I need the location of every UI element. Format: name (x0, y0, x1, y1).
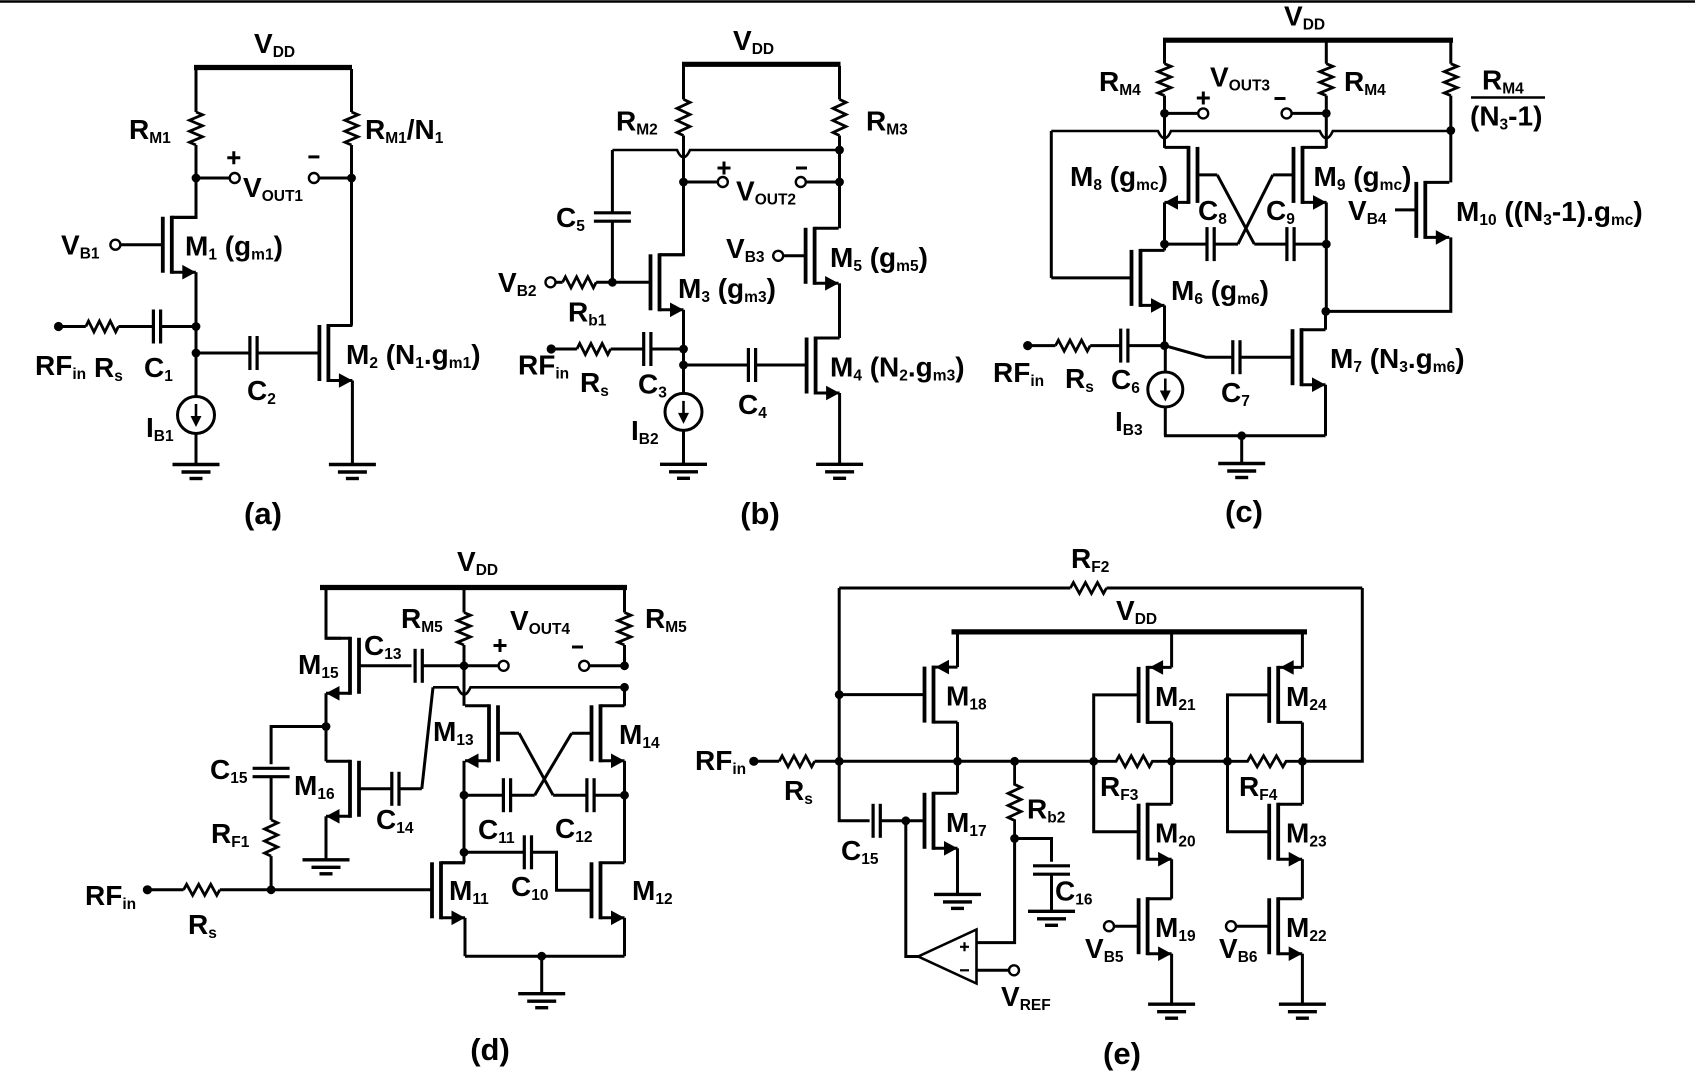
capacitor C14 (390, 772, 393, 806)
ground (d) (518, 992, 565, 995)
minus sign (c) (1275, 97, 1286, 100)
wire M13 source to node A (d) (463, 761, 466, 795)
wire M13 gate diagonal to C12 (519, 733, 553, 795)
wire node to C4 (684, 364, 749, 367)
resistor RM4 left (1158, 64, 1171, 96)
wire M20 source to M19 drain (1170, 859, 1173, 899)
resistor Rs (a) (86, 321, 119, 332)
resistor RF2 (1070, 583, 1106, 594)
wire node to ground (c) (1240, 436, 1243, 464)
wire RFin to Rs (e) (754, 760, 779, 763)
wire M7 source down (c) (1324, 385, 1327, 436)
wire input node to IB3 (1164, 346, 1167, 372)
ground (c) (1218, 462, 1265, 465)
wire VB5 to M19 gate (1114, 925, 1139, 928)
transistor M1 (161, 217, 165, 273)
wire Rs to RF node (e) (815, 760, 840, 763)
wire M23 gate to RF4 node (1228, 761, 1270, 831)
wire tee to M18 gate (839, 693, 924, 696)
node input (a) (192, 322, 201, 331)
wire C15 to RF1 (270, 777, 273, 820)
wire M5 source to M4 drain (838, 283, 841, 338)
node RF4 left (1223, 757, 1232, 766)
wire M8 gate lead (1198, 173, 1218, 176)
node RF input (e) (835, 757, 844, 766)
terminal VB1 (110, 240, 120, 250)
ground IB1 (173, 463, 220, 466)
node out- (c) (1322, 109, 1331, 118)
wire resistor to feedback node (c) (1449, 96, 1452, 131)
wire M16 source to ground (325, 816, 328, 860)
transistor M21 pmos (1137, 667, 1141, 723)
node A (c) (1160, 240, 1169, 249)
terminal out+ (c) (1198, 108, 1208, 118)
node C10 tap (d) (460, 848, 469, 857)
svg-text:(d): (d) (470, 1032, 510, 1067)
wire node to C15 branch (271, 727, 326, 765)
ground M19 (1148, 1003, 1195, 1006)
wire feedback to M6 gate (1051, 276, 1131, 279)
RF row wire (e) (839, 760, 1093, 763)
wire M18 drain to RF node (956, 722, 959, 761)
resistor RM3 (833, 99, 846, 135)
wire C7 to M7 gate (1240, 356, 1293, 359)
transistor M15 (357, 638, 361, 694)
wire out+ node to M8 drain (1163, 113, 1166, 147)
wire VB6 to M22 gate (1236, 925, 1269, 928)
wire M14 gate lead (572, 732, 592, 735)
wire Rs to M11 gate (220, 888, 432, 891)
wire M14 drain to node (623, 687, 626, 706)
transistor M10 (1414, 182, 1418, 238)
terminal out- (d) (579, 661, 589, 671)
wire left feedback vertical (838, 588, 841, 761)
capacitor C2 (248, 336, 251, 370)
wire RM5 right to out- node (623, 645, 626, 666)
capacitor C12 (585, 778, 588, 812)
wire out+ to terminal (d) (464, 664, 499, 667)
resistor RF4 (1228, 756, 1303, 767)
resistor Rb2 (1008, 761, 1021, 838)
node M16 drain (d) (322, 722, 331, 731)
wire feedback vertical (c) (1050, 131, 1053, 278)
transistor M19 (1137, 898, 1141, 954)
svg-text:(c): (c) (1225, 494, 1263, 529)
wire terminal to out- node (c) (1292, 112, 1327, 115)
transistor M13 (496, 705, 500, 761)
wire VDD to RM5 left (463, 590, 466, 613)
node B (c) (1322, 240, 1331, 249)
wire M11 source to bottom rail (464, 918, 467, 956)
wire C2 node to IB1 (195, 353, 198, 397)
wire Rb1 to VB2 node (596, 281, 612, 284)
bottom rail (d) (465, 955, 625, 958)
transistor M7 (1291, 329, 1295, 385)
node RF4 right (1298, 757, 1307, 766)
terminal RFin (e) (749, 757, 758, 766)
wire VB2 node to M3 gate (612, 281, 650, 284)
capacitor C4 (747, 348, 750, 382)
wire M2 source to ground (351, 381, 354, 465)
wire input diagonal to C7 (1165, 346, 1233, 358)
node ground (d) (537, 952, 546, 961)
wire C15 branch down (839, 761, 869, 821)
wire RFin to Rs (b) (551, 348, 577, 351)
wire C5 top feedback with hop (612, 150, 839, 157)
current source IB1 (178, 397, 215, 434)
wire Rs to C1 (118, 325, 153, 328)
VDD rail (d) (320, 585, 627, 590)
transistor M24 pmos (1267, 667, 1271, 723)
wire C15 to gate node (880, 819, 906, 822)
wire gate node to opamp output (906, 821, 918, 957)
wire C12 to node B (594, 794, 624, 797)
current source IB3 (1148, 372, 1183, 407)
terminal out- (a) (309, 173, 319, 183)
VDD rail (e) (952, 629, 1308, 634)
transistor M17 (923, 793, 927, 849)
wire VDD to RM5 right (623, 590, 626, 613)
capacitor C11 (502, 778, 505, 812)
RF row wire mid (e) (1172, 760, 1228, 763)
capacitor C13 (414, 649, 417, 683)
wire RF2 to right vertical (1107, 587, 1363, 590)
wire RFin to Rs (c) (1028, 344, 1056, 347)
wire C5 top vertical (611, 150, 614, 213)
wire M23 source to M22 drain (1301, 859, 1304, 899)
capacitor C16 (1033, 864, 1070, 867)
bottom rail (c) (1164, 434, 1326, 437)
node VB2 (b) (608, 278, 617, 287)
node feedback right (b) (835, 146, 844, 155)
node RF3 left (1089, 757, 1098, 766)
wire C14 right stub (399, 787, 422, 790)
wire M18 source to VDD (956, 632, 959, 667)
wire right feedback vertical (1302, 588, 1362, 761)
wire C13 to out+ node (d) (422, 664, 464, 667)
wire node A to C8 (1165, 243, 1208, 246)
resistor Rs (e) (779, 756, 814, 767)
capacitor C15 (e) (871, 804, 874, 838)
ground IB2 (660, 463, 707, 466)
wire M15 source to node (325, 693, 328, 726)
resistor RM4 mid (1320, 64, 1333, 96)
ground C16 (1028, 910, 1075, 913)
wire Rs to C3 (611, 348, 644, 351)
wire node to C10 (464, 851, 524, 854)
wire terminal to out- node (319, 177, 352, 180)
transistor M14 (590, 705, 594, 761)
node out- (a) (347, 174, 356, 183)
wire M9 source to node B (1325, 202, 1328, 244)
minus sign (d) (572, 646, 583, 649)
wire C11 to M14 gate diagonal (511, 794, 535, 797)
capacitor C5 (594, 211, 631, 214)
transistor M12 (590, 862, 594, 918)
wire M14 gate diagonal to C11 (535, 733, 572, 795)
wire M11 drain corner (441, 861, 464, 864)
node out- (d) (620, 661, 629, 670)
capacitor C8 (1205, 227, 1208, 261)
wire M23 drain to RF4 node (1301, 761, 1304, 804)
VDD rail (b) (682, 62, 841, 67)
wire opamp minus to VREF (977, 969, 1010, 972)
wire input node to C4 node (682, 349, 685, 365)
node out- (b) (835, 178, 844, 187)
wire C4 to M4 gate (756, 364, 807, 367)
node feedback right (c) (1446, 126, 1455, 135)
terminal out+ (d) (499, 661, 509, 671)
resistor RM1 (190, 112, 203, 145)
capacitor C15 (d) (253, 767, 290, 770)
transistor M11 (430, 862, 434, 918)
wire M17 source to ground (956, 848, 959, 894)
terminal VB2 (546, 277, 556, 287)
wire VB2 to Rb1 (556, 281, 563, 284)
transistor M9 (1292, 147, 1296, 203)
node Rb2 top (1010, 757, 1019, 766)
node RF1 input (d) (267, 885, 276, 894)
plus sign (a) (227, 151, 240, 164)
wire RM4 to out+ node (c) (1163, 96, 1166, 114)
ground M16 (303, 858, 350, 861)
terminal out- (b) (796, 177, 806, 187)
wire M21 gate to RF3 node (1094, 695, 1139, 761)
wire RM3 to node (b) (838, 136, 841, 183)
terminal VB6 (1226, 921, 1236, 931)
wire C6 to input node (c) (1128, 344, 1165, 347)
resistor RF3 (1094, 756, 1172, 767)
capacitor C10 (523, 835, 526, 869)
node mid (c) (1321, 307, 1330, 316)
wire M1 source down (195, 272, 198, 326)
wire out+ node to M3 drain (660, 182, 684, 255)
wire C10 to M12 gate (532, 852, 592, 890)
wire VB4 stub to M10 gate (1395, 208, 1416, 211)
wire C3 to input node (b) (651, 348, 684, 351)
feedback wire RF2 top (839, 587, 1070, 590)
resistor Rs (d) (184, 884, 220, 895)
transistor M6 (1130, 250, 1134, 306)
terminal VB3 (773, 251, 783, 261)
plus sign (b) (718, 162, 731, 175)
wire M22 source to ground (1301, 954, 1304, 1005)
fraction bar (1471, 96, 1545, 99)
op-amp plus input mark (960, 942, 969, 951)
wire node A to C10 node (463, 795, 466, 852)
terminal out+ (a) (230, 173, 240, 183)
resistor Rb1 (563, 277, 597, 288)
minus sign (b) (796, 167, 807, 170)
svg-text:(e): (e) (1103, 1036, 1141, 1071)
terminal RFin (c) (1023, 341, 1032, 350)
wire node B to mid node (1325, 244, 1328, 311)
wire VDD to RM3 (838, 66, 841, 99)
resistor Rs (b) (577, 344, 611, 355)
minus sign (a) (308, 155, 319, 158)
capacitor C6 (1119, 329, 1122, 363)
wire M10 drain to feedback node (1449, 131, 1452, 183)
node B (d) (620, 791, 629, 800)
wire RFin to Rs (a) (59, 325, 86, 328)
node RF3 right (1167, 757, 1176, 766)
wire M13 diagonal to C12 (553, 794, 587, 797)
wire C5 to VB2 node (611, 221, 614, 282)
node C2 tap (a) (192, 349, 201, 358)
wire M16 gate to C14 (359, 787, 392, 790)
feedback wire with hops (c) (1051, 131, 1451, 138)
wire Rs to C6 (1090, 344, 1121, 347)
node A (d) (460, 791, 469, 800)
wire VDD to RM4 left (1163, 42, 1166, 64)
transistor M23 (1267, 804, 1271, 860)
wire M7 drain to mid node (1324, 311, 1327, 329)
resistor RF1 (265, 820, 278, 856)
wire RF1 to input node (d) (270, 856, 273, 890)
op-amp U1 (918, 930, 976, 984)
wire VDD to RM1 (195, 69, 198, 112)
wire out- node to M9 drain (1325, 113, 1328, 147)
wire IB1 to ground (195, 434, 198, 465)
node input (c) (1160, 341, 1169, 350)
capacitor C7 (1231, 340, 1234, 374)
wire C4 node to IB2 (682, 365, 685, 394)
page top border (0, 0, 1695, 3)
wire RM5 to out+ node (463, 645, 466, 666)
node out+ (a) (192, 174, 201, 183)
capacitor C1 (152, 310, 155, 344)
VDD rail (a) (194, 65, 352, 70)
wire node A to C11 (464, 794, 503, 797)
terminal out+ (b) (718, 177, 728, 187)
wire node to M17 gate (906, 819, 925, 822)
wire VDD to M24 source (1301, 632, 1304, 668)
resistor RM1/N1 (345, 112, 358, 145)
wire M8 source to node A (1163, 202, 1166, 244)
wire M12 source to bottom rail (623, 918, 626, 956)
wire C1 to input node (a) (161, 325, 196, 328)
resistor RM2 (677, 99, 690, 135)
wire M8 diagonal to C9 (1254, 243, 1287, 246)
wire M9 gate lead (1273, 173, 1294, 176)
wire VDD to RM4 mid (1325, 42, 1328, 64)
node M14 drain (d) (620, 683, 629, 692)
wire RM4 mid to out- node (c) (1325, 96, 1328, 114)
wire out+ node to M1 drain (172, 178, 196, 218)
VDD rail (c) (1163, 38, 1453, 43)
terminal VB5 (1104, 921, 1114, 931)
wire M12 drain to node B (623, 795, 626, 863)
wire VB1 to M1 gate (120, 243, 162, 246)
wire RFin to Rs (d) (147, 888, 183, 891)
wire IB2 to ground (682, 430, 685, 464)
resistor RM5 right (618, 613, 631, 646)
capacitor C3 (642, 332, 645, 366)
transistor M8 (1196, 147, 1200, 203)
transistor M5 (804, 228, 808, 284)
terminal RFin (a) (54, 322, 63, 331)
wire M6 source down (1163, 305, 1166, 345)
wire C10 node to M11 drain (463, 852, 466, 863)
transistor M3 (649, 254, 653, 310)
wire C9 to node B (1294, 243, 1326, 246)
wire IB3 to bottom rail (1164, 407, 1167, 436)
wire node to C2 (196, 352, 250, 355)
node out+ (d) (460, 661, 469, 670)
feedback wire with hop (d) (433, 687, 625, 694)
transistor M22 (1267, 898, 1271, 954)
node ground (c) (1237, 431, 1246, 440)
ground M22 (1279, 1003, 1326, 1006)
wire M13 drain to out+ node (463, 666, 466, 706)
terminal VREF (1009, 965, 1019, 975)
wire VDD to RM2 (682, 66, 685, 99)
node M17 gate (901, 816, 910, 825)
transistor M20 (1137, 804, 1141, 860)
wire M20 drain to RF3 node (1170, 761, 1173, 804)
terminal RFin (d) (143, 885, 152, 894)
terminal out- (c) (1282, 108, 1292, 118)
wire VB3 to M5 gate (783, 254, 805, 257)
wire M17 drain to RF row (956, 761, 959, 793)
wire RM2 to out+ node (b) (682, 136, 685, 183)
wire VDD to M15 drain (326, 590, 341, 638)
wire terminal to out- node (b) (806, 181, 840, 184)
wire M24 gate to RF4 node (1228, 695, 1270, 761)
wire out+ to terminal (c) (1165, 112, 1199, 115)
transistor M18 pmos (923, 667, 927, 723)
wire C2 to M2 gate (257, 352, 319, 355)
wire M19 source to ground (1170, 954, 1173, 1005)
wire VDD to RM1/N1 (350, 69, 353, 112)
ground M4 (816, 463, 863, 466)
wire out+ to terminal (b) (684, 181, 718, 184)
wire M20 gate to RF3 node (1094, 761, 1139, 831)
wire M8 gate diagonal to C9 (1217, 175, 1254, 244)
wire mid node to M10 source (1326, 237, 1451, 311)
node M17 drain (953, 757, 962, 766)
wire input node to C2 node (195, 327, 198, 354)
wire M15 gate to C13 (359, 664, 412, 667)
wire Rb2 node to C16 (1015, 839, 1052, 862)
plus sign (c) (1197, 92, 1210, 105)
wire M24 drain to RF4 node (1301, 722, 1304, 761)
wire node to ground (d) (540, 956, 543, 994)
wire M14 source to node B (d) (623, 761, 626, 795)
wire M9 gate diagonal to C8 (1238, 175, 1273, 244)
svg-text:(a): (a) (244, 496, 282, 531)
node out+ (c) (1160, 109, 1169, 118)
wire terminal to out- node (d) (589, 664, 624, 667)
wire M13 gate lead (498, 732, 519, 735)
op-amp minus input mark (960, 969, 969, 971)
wire M4 source to ground (838, 393, 841, 464)
resistor RM4/(N3-1) (1444, 64, 1457, 96)
resistor RM5 left (458, 613, 471, 646)
wire RM1 to out+ node (195, 145, 198, 178)
capacitor C9 (1285, 227, 1288, 261)
wire VDD to M21 source (1170, 632, 1173, 668)
svg-text:(b): (b) (740, 496, 780, 531)
wire M21 drain to RF3 node (1170, 722, 1173, 761)
plus sign (d) (494, 639, 507, 652)
wire VDD to RM4/N3-1 (1449, 42, 1452, 64)
wire opamp plus input to Rb2 node (977, 839, 1015, 943)
ground M2 (329, 463, 376, 466)
wire C16 to ground (1050, 874, 1053, 911)
terminal RFin (b) (547, 344, 556, 353)
wire M16 drain to node (325, 727, 328, 762)
